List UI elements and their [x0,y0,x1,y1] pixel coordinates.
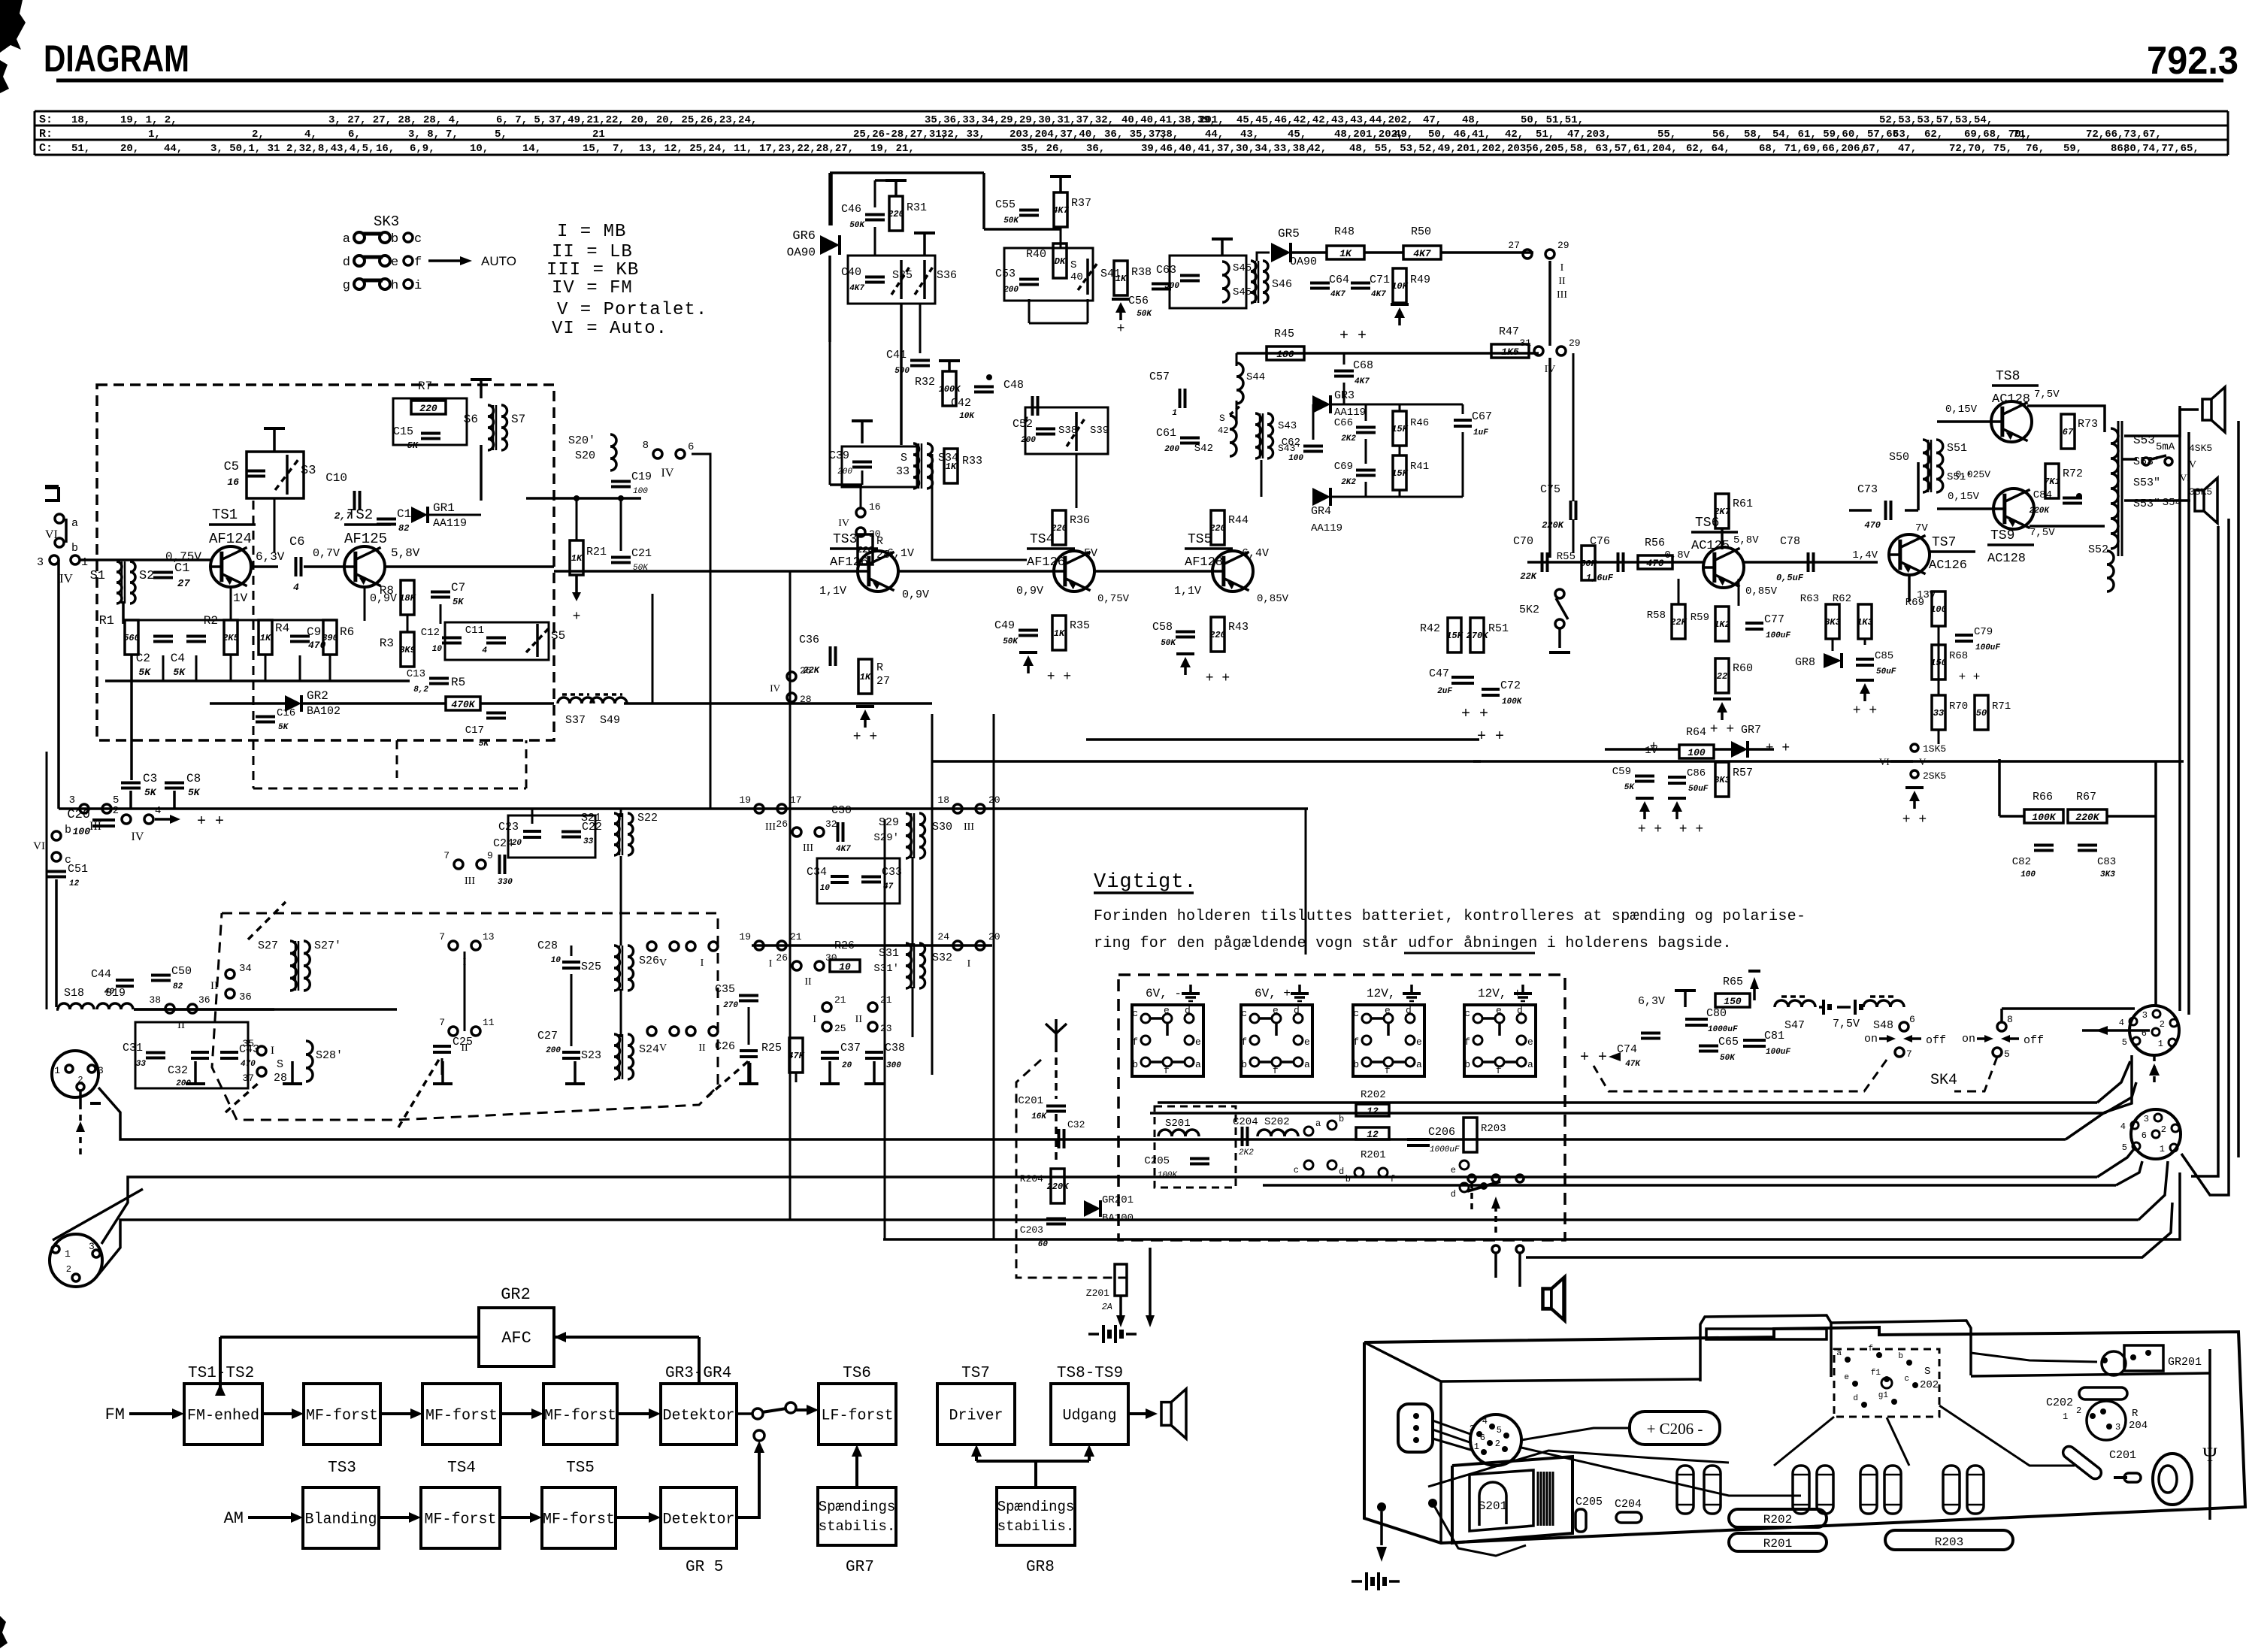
svg-text:IV: IV [132,831,144,843]
svg-text:C69: C69 [1334,461,1353,473]
svg-text:f: f [1273,1065,1279,1076]
svg-text:34: 34 [239,963,252,975]
svg-text:21: 21 [592,129,605,141]
svg-text:31: 31 [1519,337,1531,349]
svg-text:I: I [769,958,773,970]
svg-text:AF125: AF125 [344,531,387,547]
svg-text:5K2: 5K2 [1519,604,1539,616]
svg-text:C57: C57 [1149,371,1170,383]
svg-text:1K: 1K [1115,274,1128,284]
svg-text:6,: 6, [348,129,361,141]
svg-text:C40: C40 [841,266,861,279]
svg-text:2: 2 [113,805,119,817]
svg-text:0,9V: 0,9V [902,588,929,601]
svg-text:f: f [1868,1345,1873,1354]
svg-text:4K7: 4K7 [1413,248,1431,259]
svg-text:+ +: + + [1461,706,1488,723]
svg-text:8: 8 [643,440,649,452]
svg-text:R: R [2132,1408,2139,1420]
svg-text:3K9: 3K9 [399,645,416,655]
svg-text:4: 4 [2119,1018,2124,1028]
svg-text:on: on [1864,1033,1878,1045]
svg-text:80,74,77,65,: 80,74,77,65, [2123,143,2199,155]
svg-text:72,70, 75,: 72,70, 75, [1949,143,2012,155]
svg-text:1K2: 1K2 [1714,619,1730,630]
svg-text:e: e [1496,1005,1502,1016]
svg-text:27: 27 [177,578,190,590]
svg-text:100uF: 100uF [1766,631,1790,640]
svg-text:R25: R25 [761,1042,782,1054]
svg-text:AC128: AC128 [1992,392,2030,407]
svg-text:GR 5: GR 5 [686,1559,723,1576]
svg-text:100uF: 100uF [1766,1048,1790,1057]
svg-text:5: 5 [113,794,119,806]
svg-text:4K7: 4K7 [849,284,864,293]
svg-text:FM-enhed: FM-enhed [187,1408,259,1425]
svg-text:C10: C10 [325,471,347,485]
svg-text:43,: 43, [1240,129,1259,141]
svg-text:38: 38 [149,994,161,1006]
svg-text:R45: R45 [1274,328,1294,340]
svg-text:22K: 22K [1670,617,1688,628]
svg-text:S27: S27 [258,939,278,952]
svg-text:S23: S23 [581,1049,601,1062]
svg-text:300: 300 [886,1061,901,1070]
svg-text:35, 26,: 35, 26, [1021,143,1065,155]
svg-text:C7: C7 [451,581,465,595]
svg-text:S37: S37 [565,714,586,727]
svg-text:50K: 50K [1720,1054,1736,1063]
svg-text:S35: S35 [892,269,913,282]
svg-text:AA119: AA119 [433,517,467,530]
svg-text:220K: 220K [1047,1182,1070,1192]
svg-text:S25: S25 [581,961,601,973]
svg-text:C71: C71 [1370,274,1390,286]
svg-text:e: e [1195,1036,1201,1048]
svg-text:IV: IV [59,571,74,585]
svg-text:V: V [659,958,667,969]
svg-text:2: 2 [77,1075,83,1085]
svg-text:150: 150 [1724,996,1742,1007]
svg-text:SK4: SK4 [1930,1072,1957,1089]
svg-text:R: R [876,535,883,548]
svg-text:S44: S44 [1246,371,1265,383]
svg-text:180: 180 [1276,349,1294,360]
svg-text:2: 2 [66,1264,71,1275]
svg-text:20: 20 [842,1061,852,1070]
svg-text:+ +: + + [1853,703,1877,719]
svg-text:AFC: AFC [501,1329,531,1348]
svg-text:19, 1, 2,: 19, 1, 2, [120,114,177,126]
svg-text:TS7: TS7 [961,1365,990,1382]
svg-text:54, 61, 59,60, 57,65: 54, 61, 59,60, 57,65 [1772,129,1899,141]
svg-text:b: b [71,542,78,555]
svg-text:203,204,37,40, 36, 35,37,: 203,204,37,40, 36, 35,37, [1009,129,1167,141]
svg-text:17: 17 [790,794,802,806]
svg-text:R47: R47 [1499,325,1519,338]
svg-text:GR6: GR6 [792,229,816,244]
svg-text:R46: R46 [1410,417,1429,429]
svg-text:GR1: GR1 [433,501,455,515]
svg-text:C206: C206 [1428,1126,1455,1139]
svg-text:R1: R1 [99,614,114,628]
svg-text:50K: 50K [1003,216,1019,225]
svg-text:R59: R59 [1691,612,1709,624]
svg-text:S: S [1219,413,1225,424]
svg-text:50K: 50K [1580,558,1597,569]
svg-text:b: b [391,232,398,247]
svg-text:+: + [1650,740,1658,755]
svg-text:5,: 5, [495,129,507,141]
svg-text:7,: 7, [446,129,459,141]
svg-text:C201: C201 [2109,1449,2136,1462]
svg-text:4,: 4, [304,129,317,141]
svg-text:C36: C36 [799,634,819,646]
svg-text:41,: 41, [1472,129,1491,141]
svg-text:R56: R56 [1645,537,1665,549]
svg-text:III: III [803,843,813,854]
svg-text:2K2: 2K2 [1239,1148,1254,1157]
svg-text:500: 500 [1164,282,1179,291]
svg-text:7: 7 [439,1017,445,1028]
svg-text:59,: 59, [2063,143,2082,155]
svg-text:792.3: 792.3 [2147,39,2238,83]
svg-text:GR2: GR2 [501,1285,531,1304]
svg-text:TS9: TS9 [1990,528,2014,543]
svg-text:R44: R44 [1228,514,1249,527]
svg-text:1: 1 [1474,1442,1479,1452]
svg-text:e: e [1451,1165,1456,1175]
svg-text:a: a [1527,1059,1533,1070]
svg-text:1,4V: 1,4V [1852,549,1878,561]
svg-text:b: b [65,824,71,837]
svg-text:g: g [343,279,350,293]
svg-text:R203: R203 [1935,1536,1963,1549]
svg-text:16,: 16, [376,143,395,155]
svg-text:100: 100 [1288,454,1303,463]
svg-text:1: 1 [81,556,88,569]
svg-text:7,: 7, [613,143,625,155]
svg-text:50: 50 [1976,708,1987,719]
svg-text:DK: DK [1055,256,1067,267]
svg-text:+ C206 -: + C206 - [1647,1420,1703,1438]
svg-text:37,49,21,22, 20, 20, 25,26,23,: 37,49,21,22, 20, 20, 25,26,23,24, [549,114,757,126]
svg-text:C64: C64 [1329,274,1349,286]
svg-text:DIAGRAM: DIAGRAM [44,38,189,80]
svg-text:2,: 2, [252,129,265,141]
svg-text:AF126: AF126 [830,555,868,570]
svg-text:100K: 100K [1502,697,1523,706]
svg-text:stabilis.: stabilis. [997,1518,1075,1535]
svg-text:R40: R40 [1026,248,1046,261]
svg-text:+: + [1117,322,1125,337]
svg-text:C85: C85 [1875,650,1893,662]
svg-text:1V: 1V [233,592,248,605]
svg-text:0,75V: 0,75V [165,550,201,564]
svg-text:TS3: TS3 [328,1460,356,1477]
svg-text:TS6: TS6 [843,1365,871,1382]
svg-text:1: 1 [1172,409,1177,418]
svg-text:Spændings: Spændings [997,1499,1075,1515]
svg-text:3K3: 3K3 [2100,870,2115,879]
svg-text:R4: R4 [275,622,289,635]
svg-text:33: 33 [136,1060,147,1069]
svg-text:R202: R202 [1361,1089,1386,1101]
svg-text:C12: C12 [421,627,440,639]
svg-text:S30: S30 [932,821,952,834]
svg-text:S3: S3 [301,464,316,478]
svg-text:ring for den pågældende vogn s: ring for den pågældende vogn står udfor … [1094,935,1732,952]
svg-text:C201: C201 [1018,1095,1043,1107]
svg-text:15K: 15K [1391,424,1409,434]
svg-text:3, 27, 27, 28, 28, 4,: 3, 27, 27, 28, 28, 4, [328,114,461,126]
svg-text:4K7: 4K7 [1330,290,1345,299]
svg-text:3: 3 [2144,1114,2149,1124]
svg-text:4: 4 [482,646,487,655]
svg-text:c: c [1353,1008,1359,1019]
svg-text:330: 330 [498,878,513,887]
svg-text:TS4: TS4 [447,1460,476,1477]
svg-text:Vigtigt.: Vigtigt. [1094,871,1197,894]
svg-text:33: 33 [583,837,594,846]
svg-text:2K2: 2K2 [1341,478,1356,487]
svg-text:S28': S28' [316,1049,343,1062]
svg-text:100uF: 100uF [1975,643,2000,652]
svg-text:47,203,: 47,203, [1567,129,1612,141]
svg-text:R8: R8 [380,584,394,598]
svg-text:e: e [1273,1005,1279,1016]
svg-text:+ +: + + [1339,328,1367,345]
svg-text:III = KB: III = KB [546,260,639,280]
svg-text:1K5: 1K5 [1501,346,1519,358]
svg-text:C70: C70 [1513,535,1533,548]
svg-text:18,: 18, [71,114,90,126]
svg-text:1uF: 1uF [1473,428,1488,437]
svg-text:204: 204 [2129,1420,2148,1432]
svg-text:C205: C205 [1144,1155,1170,1167]
svg-text:47,: 47, [1423,114,1442,126]
svg-text:3: 3 [37,556,44,569]
svg-text:3: 3 [98,1065,104,1076]
svg-text:45,45,46,42,42,43,43,44,202,: 45,45,46,42,42,43,43,44,202, [1236,114,1413,126]
svg-text:C65: C65 [1718,1036,1739,1048]
svg-text:4K7: 4K7 [836,845,851,854]
svg-text:C19: C19 [631,470,652,483]
svg-text:28: 28 [800,694,812,705]
svg-text:200: 200 [837,467,852,477]
svg-text:C3: C3 [143,772,157,785]
svg-text:C8: C8 [186,772,201,785]
svg-text:c: c [1464,1008,1470,1019]
svg-text:1: 1 [2063,1411,2068,1422]
svg-text:55,: 55, [1657,129,1676,141]
svg-text:R202: R202 [1763,1513,1792,1526]
svg-text:19, 21,: 19, 21, [870,143,915,155]
svg-text:Ψ: Ψ [2202,1444,2217,1466]
svg-text:g1: g1 [1878,1391,1889,1400]
svg-text:TS3: TS3 [833,532,857,547]
svg-text:68, 71,69,66,206,: 68, 71,69,66,206, [1759,143,1866,155]
svg-text:2: 2 [2076,1405,2081,1416]
svg-text:270K: 270K [1467,631,1490,641]
svg-text:4SK5: 4SK5 [2189,443,2212,454]
svg-text:10: 10 [432,645,443,654]
svg-text:f: f [1496,1065,1502,1076]
svg-text:GR7: GR7 [1741,724,1761,737]
svg-text:GR8: GR8 [1026,1559,1055,1576]
svg-text:29: 29 [1557,240,1569,251]
svg-text:Z201: Z201 [1086,1287,1109,1299]
svg-text:82: 82 [398,523,409,534]
svg-text:IV: IV [770,682,780,694]
svg-text:3: 3 [69,794,75,806]
svg-text:100K: 100K [2032,812,2056,823]
svg-text:30: 30 [825,952,837,964]
svg-text:S27': S27' [314,939,341,952]
svg-text:0,8V: 0,8V [1664,549,1690,561]
svg-text:60: 60 [1038,1240,1049,1249]
svg-text:+ +: + + [1710,722,1734,737]
svg-text:S51: S51 [1947,442,1967,455]
svg-text:5K: 5K [1624,783,1636,792]
svg-text:AM: AM [224,1509,244,1528]
svg-text:TS5: TS5 [566,1460,595,1477]
svg-text:II = LB: II = LB [552,242,633,262]
svg-text:on: on [1962,1033,1975,1045]
svg-text:6,9,: 6,9, [410,143,435,155]
svg-text:S: S [901,452,907,464]
svg-text:40: 40 [104,988,115,997]
svg-text:6V, +: 6V, + [1255,987,1291,1000]
svg-text:24: 24 [937,931,949,942]
svg-text:+ +: + + [1902,812,1927,828]
svg-text:S38: S38 [1058,425,1077,437]
svg-text:C17: C17 [465,725,484,737]
svg-text:7: 7 [1906,1048,1912,1060]
svg-text:e: e [391,256,398,270]
svg-text:AUTO: AUTO [481,254,516,268]
svg-text:32, 33,: 32, 33, [941,129,985,141]
svg-text:560: 560 [123,633,140,643]
svg-text:1K: 1K [860,672,872,682]
svg-text:50uF: 50uF [1876,667,1896,676]
svg-text:Spændings: Spændings [819,1499,896,1515]
svg-text:b: b [1241,1059,1247,1070]
svg-text:5: 5 [2122,1037,2127,1048]
svg-text:2K5: 2K5 [222,633,239,643]
svg-text:d: d [1339,1166,1344,1177]
svg-text:e: e [1385,1005,1391,1016]
svg-text:15,: 15, [583,143,601,155]
svg-text:42: 42 [1218,425,1228,436]
svg-text:1K: 1K [571,553,583,564]
svg-text:R26: R26 [834,939,855,952]
svg-text:C48: C48 [1003,379,1024,392]
svg-text:R6: R6 [340,625,354,639]
svg-text:I: I [813,1014,816,1025]
svg-text:S6: S6 [464,413,478,426]
svg-text:C204: C204 [1615,1498,1642,1511]
svg-text:a: a [1195,1059,1201,1070]
svg-text:R70: R70 [1949,700,1968,713]
svg-text:R31: R31 [907,201,927,214]
svg-text:10: 10 [839,961,851,973]
svg-text:I: I [271,1045,274,1057]
svg-text:9: 9 [487,850,493,861]
svg-text:1,1V: 1,1V [819,585,846,598]
svg-text:3: 3 [1470,1424,1475,1434]
svg-text:10: 10 [551,956,561,965]
svg-text:TS4: TS4 [1030,532,1054,547]
svg-text:12: 12 [69,879,80,888]
svg-text:GR201: GR201 [1102,1194,1134,1206]
svg-text:6,3V: 6,3V [256,550,285,564]
svg-text:62, 64,: 62, 64, [1686,143,1730,155]
svg-text:1SK5: 1SK5 [1923,743,1946,755]
svg-text:36: 36 [239,991,252,1003]
svg-text:10K: 10K [1391,281,1409,292]
svg-text:R49: R49 [1410,274,1430,286]
svg-text:7: 7 [443,850,449,861]
svg-text:Detektor: Detektor [662,1408,734,1425]
svg-text:f: f [1385,1065,1391,1076]
svg-text:4: 4 [1482,1416,1488,1427]
svg-text:4: 4 [293,582,299,593]
svg-text:III: III [1557,289,1567,301]
svg-text:C16: C16 [277,707,295,719]
svg-text:MF-forst: MF-forst [424,1511,496,1529]
svg-text:AF124: AF124 [209,531,252,547]
svg-text:33: 33 [1933,708,1944,719]
svg-text:a: a [1304,1059,1310,1070]
svg-text:26: 26 [800,665,812,676]
svg-text:LF-forst: LF-forst [821,1408,893,1425]
svg-text:2uF: 2uF [1437,687,1452,696]
svg-text:36,: 36, [1086,143,1105,155]
svg-text:14,: 14, [522,143,541,155]
svg-text:100: 100 [1688,747,1706,758]
svg-text:38,: 38, [1160,129,1179,141]
svg-text:7,5V: 7,5V [1833,1018,1860,1030]
svg-text:Detektor: Detektor [662,1511,734,1529]
svg-text:49,: 49, [1394,129,1413,141]
svg-text:47K: 47K [1625,1060,1641,1069]
svg-text:5K: 5K [453,597,465,607]
svg-text:S36: S36 [937,269,957,282]
svg-text:C79: C79 [1974,626,1993,638]
svg-text:26: 26 [776,818,788,830]
svg-text:f: f [1164,1065,1170,1076]
svg-text:100K: 100K [1158,1171,1179,1180]
svg-text:2: 2 [1495,1439,1500,1449]
svg-text:1,6uF: 1,6uF [1586,573,1614,583]
svg-text:15K: 15K [1391,468,1409,479]
svg-text:220K: 220K [2075,812,2099,823]
svg-text:MF-forst: MF-forst [425,1408,498,1425]
svg-text:S7: S7 [511,413,525,426]
svg-text:C28: C28 [537,939,558,952]
svg-text:C204: C204 [1233,1116,1258,1128]
svg-text:C72: C72 [1500,679,1521,692]
svg-text:52,53,53,57,53,54,: 52,53,53,57,53,54, [1879,114,1993,126]
svg-text:C:: C: [39,142,53,155]
svg-text:S: S [277,1058,283,1071]
svg-text:a: a [71,517,78,530]
svg-text:6,3V: 6,3V [1638,995,1665,1008]
svg-text:+ +: + + [853,730,877,745]
svg-text:39,46,40,41,37,30,34,33,38,: 39,46,40,41,37,30,34,33,38, [1141,143,1312,155]
svg-text:200: 200 [1003,286,1019,295]
